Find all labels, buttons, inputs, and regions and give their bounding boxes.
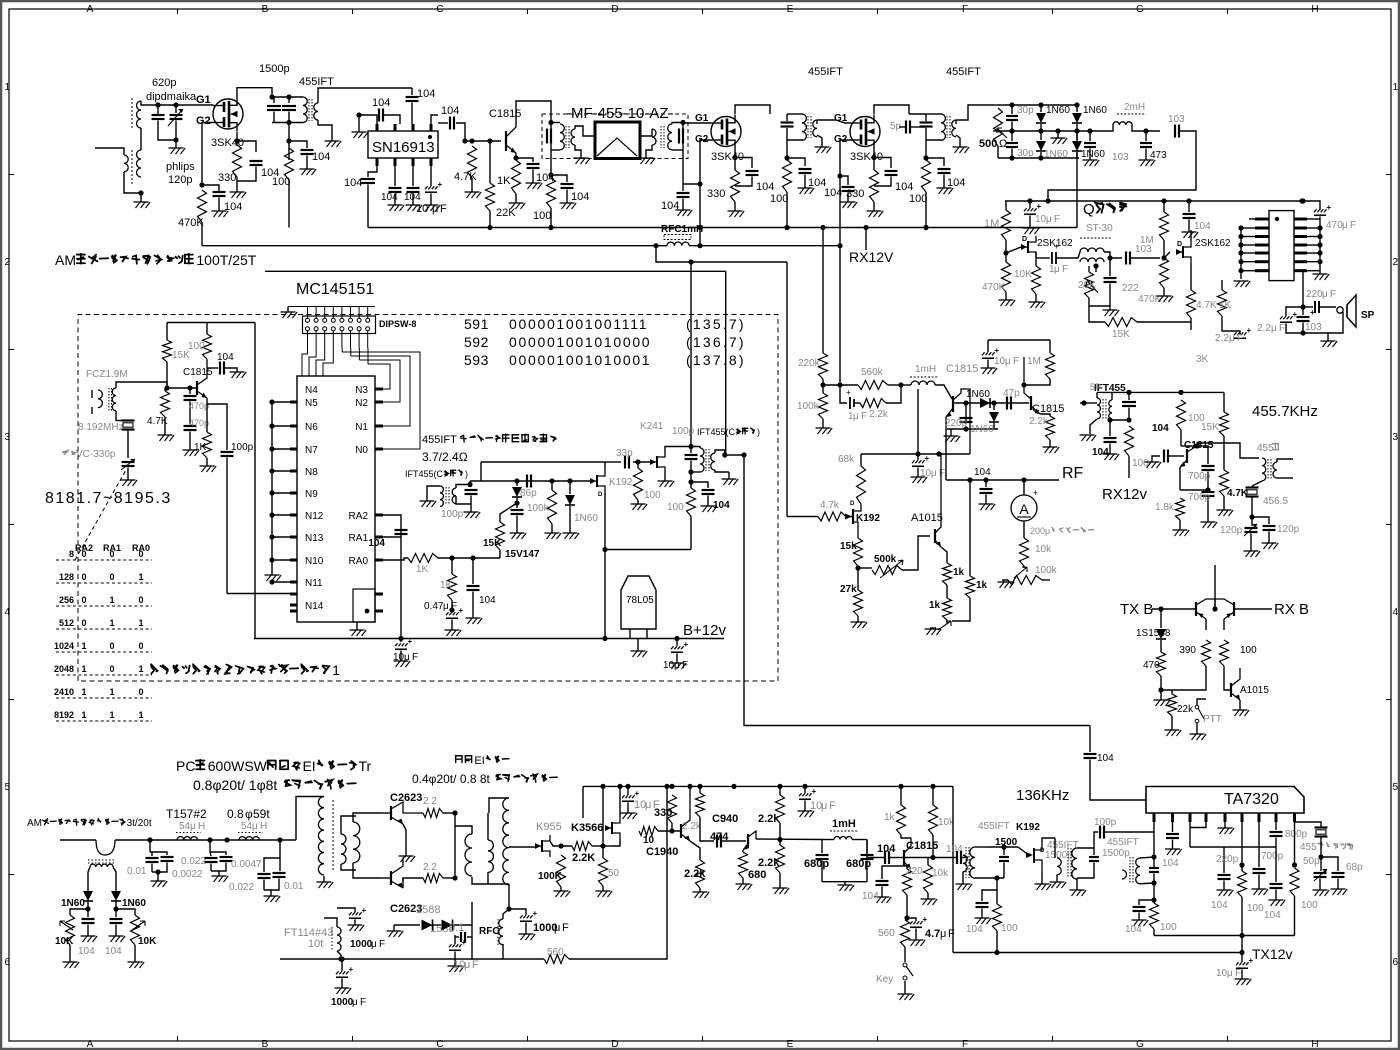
- svg-text:0.022: 0.022: [181, 856, 206, 867]
- svg-text:N8: N8: [305, 467, 318, 478]
- svg-text:1.8k: 1.8k: [1155, 502, 1175, 513]
- svg-text:1: 1: [332, 662, 340, 678]
- svg-text:(135.7): (135.7): [686, 316, 746, 332]
- svg-text:2.2k: 2.2k: [1029, 416, 1049, 427]
- svg-text:μ: μ: [853, 411, 859, 422]
- svg-text:1000: 1000: [331, 997, 354, 1008]
- svg-text:1K: 1K: [497, 175, 511, 187]
- svg-text:5: 5: [1268, 443, 1274, 454]
- svg-text:22K: 22K: [496, 207, 516, 219]
- svg-text:1N60: 1N60: [1081, 149, 1105, 160]
- svg-text:100: 100: [188, 341, 205, 352]
- svg-text:30p: 30p: [1017, 105, 1034, 116]
- svg-text:0.47: 0.47: [424, 601, 444, 612]
- svg-text:μ: μ: [1227, 968, 1233, 979]
- svg-text:H: H: [260, 821, 267, 832]
- svg-text:104: 104: [441, 105, 459, 117]
- svg-text:1: 1: [81, 710, 86, 720]
- svg-text:0: 0: [109, 664, 114, 674]
- svg-text:512: 512: [59, 618, 74, 628]
- svg-text:IFT455(C: IFT455(C: [697, 427, 736, 437]
- svg-text:4.7: 4.7: [925, 928, 940, 940]
- svg-text:128: 128: [59, 572, 74, 582]
- svg-text:μ: μ: [1322, 289, 1328, 300]
- svg-text:120p: 120p: [1277, 524, 1300, 535]
- svg-text:0: 0: [81, 549, 86, 559]
- svg-text:1: 1: [1393, 82, 1399, 93]
- svg-text:104: 104: [344, 177, 362, 189]
- svg-text:1: 1: [81, 664, 86, 674]
- svg-text:2410: 2410: [54, 687, 74, 697]
- svg-text:104: 104: [105, 946, 122, 957]
- svg-text:330: 330: [846, 188, 864, 200]
- svg-text:104: 104: [479, 595, 496, 606]
- svg-text:SN16913: SN16913: [372, 139, 435, 156]
- svg-text:C: C: [436, 1039, 443, 1050]
- svg-text:8: 8: [69, 549, 74, 559]
- svg-text:8192: 8192: [54, 710, 74, 720]
- svg-text:470: 470: [1143, 660, 1160, 671]
- svg-text:μ: μ: [464, 959, 470, 971]
- svg-text:1N60: 1N60: [61, 898, 85, 909]
- svg-text:0: 0: [138, 595, 143, 605]
- svg-text:10K: 10K: [1014, 269, 1032, 280]
- svg-text:RFC1mH: RFC1mH: [661, 224, 703, 235]
- svg-text:F: F: [1235, 968, 1241, 979]
- svg-text:G1: G1: [834, 113, 848, 124]
- svg-text:700p: 700p: [1261, 851, 1284, 862]
- svg-text:1K: 1K: [416, 564, 429, 575]
- svg-text:104: 104: [1194, 221, 1211, 232]
- svg-text:K241: K241: [640, 421, 664, 432]
- svg-text:ST-30: ST-30: [1086, 223, 1113, 234]
- svg-text:F: F: [360, 997, 366, 1008]
- svg-text:104: 104: [368, 538, 385, 549]
- svg-text:+: +: [462, 938, 467, 947]
- svg-text:1S1588: 1S1588: [1136, 628, 1171, 639]
- svg-text:104: 104: [966, 924, 983, 935]
- svg-text:50p: 50p: [1303, 856, 1320, 867]
- svg-text:500k: 500k: [874, 554, 897, 565]
- svg-text:10K: 10K: [138, 936, 157, 947]
- svg-text:+: +: [459, 606, 464, 615]
- svg-text:F: F: [682, 660, 688, 671]
- svg-text:20K: 20K: [1078, 280, 1096, 291]
- svg-text:1: 1: [138, 664, 143, 674]
- svg-text:N6: N6: [305, 422, 318, 433]
- svg-text:1mH: 1mH: [915, 364, 936, 375]
- svg-text:10: 10: [663, 660, 675, 671]
- svg-text:1M: 1M: [1027, 356, 1041, 367]
- svg-text:100K: 100K: [538, 871, 563, 882]
- svg-text:10k: 10k: [932, 868, 949, 879]
- svg-text:N7: N7: [305, 445, 318, 456]
- svg-text:220: 220: [1306, 289, 1323, 300]
- svg-text:1: 1: [138, 618, 143, 628]
- svg-text:μ: μ: [1271, 323, 1277, 334]
- svg-text:470K: 470K: [982, 282, 1006, 293]
- svg-text:800p: 800p: [1285, 829, 1308, 840]
- svg-text:120p: 120p: [168, 174, 192, 186]
- svg-text:RA1: RA1: [349, 533, 369, 544]
- svg-text:104: 104: [1097, 753, 1114, 764]
- svg-text:K3566: K3566: [571, 822, 603, 834]
- svg-text:μ: μ: [940, 928, 946, 940]
- svg-text:2.2: 2.2: [1215, 333, 1229, 344]
- svg-text:104: 104: [1264, 910, 1281, 921]
- svg-text:100: 100: [770, 193, 788, 205]
- svg-text:0.0022: 0.0022: [172, 869, 203, 880]
- svg-text:μ: μ: [554, 922, 560, 934]
- svg-text:E: E: [787, 1039, 794, 1050]
- svg-text:F: F: [379, 939, 385, 950]
- svg-text:1024: 1024: [54, 641, 74, 651]
- svg-text:455.7KHz: 455.7KHz: [1252, 403, 1318, 420]
- svg-text:0: 0: [138, 641, 143, 651]
- svg-text:330: 330: [707, 188, 725, 200]
- svg-text:RX B: RX B: [1274, 601, 1309, 618]
- svg-text:104: 104: [895, 181, 913, 193]
- svg-text:dipdmaika: dipdmaika: [146, 91, 197, 103]
- svg-text:A1015: A1015: [1240, 685, 1269, 696]
- svg-text:50: 50: [608, 868, 620, 879]
- svg-text:103: 103: [1305, 322, 1322, 333]
- svg-text:N14: N14: [305, 601, 324, 612]
- svg-text:1K: 1K: [194, 442, 207, 453]
- svg-text:N12: N12: [305, 511, 324, 522]
- svg-text:104: 104: [372, 97, 390, 109]
- svg-text:F: F: [1330, 289, 1336, 300]
- svg-text:1k: 1k: [953, 567, 965, 578]
- svg-text:2.2: 2.2: [423, 796, 437, 807]
- svg-text:Tr: Tr: [359, 758, 372, 774]
- svg-text:(136.7): (136.7): [686, 334, 746, 350]
- svg-text:220: 220: [906, 866, 923, 877]
- svg-text:22k: 22k: [1177, 704, 1194, 715]
- svg-text:F: F: [1279, 323, 1285, 334]
- svg-text:104: 104: [417, 88, 435, 100]
- svg-text:μ: μ: [443, 601, 449, 612]
- svg-text:100: 100: [667, 502, 684, 513]
- svg-text:D: D: [850, 501, 855, 507]
- svg-text:10: 10: [416, 203, 428, 215]
- svg-text:+: +: [1033, 488, 1038, 498]
- svg-text:5: 5: [1393, 782, 1399, 793]
- svg-text:560: 560: [878, 928, 895, 939]
- svg-text:N11: N11: [305, 578, 323, 589]
- svg-text:1: 1: [109, 687, 114, 697]
- svg-text:473: 473: [1150, 150, 1167, 161]
- svg-text:RFC: RFC: [479, 926, 500, 937]
- svg-text:68k: 68k: [838, 454, 855, 465]
- svg-text:620p: 620p: [152, 77, 176, 89]
- svg-text:A: A: [1019, 501, 1029, 517]
- svg-text:1: 1: [5, 82, 11, 93]
- svg-text:100p: 100p: [1094, 817, 1117, 828]
- svg-text:DIPSW-8: DIPSW-8: [379, 319, 416, 329]
- svg-text:0: 0: [109, 641, 114, 651]
- svg-text:μ: μ: [645, 799, 651, 811]
- svg-text:1N60: 1N60: [966, 389, 990, 400]
- svg-text:N13: N13: [305, 533, 324, 544]
- svg-text:TX B: TX B: [1120, 601, 1153, 618]
- svg-text:104: 104: [78, 946, 95, 957]
- svg-text:0.0047: 0.0047: [231, 859, 262, 870]
- svg-text:4.7K: 4.7K: [147, 416, 168, 427]
- svg-text:103: 103: [1168, 114, 1185, 125]
- svg-text:+: +: [635, 789, 640, 798]
- svg-text:3: 3: [5, 432, 11, 443]
- svg-text:φ: φ: [245, 807, 253, 821]
- svg-text:F: F: [1013, 356, 1019, 367]
- svg-text:560: 560: [547, 947, 564, 958]
- svg-text:8.192MHz: 8.192MHz: [78, 422, 124, 433]
- svg-text:VC-330p: VC-330p: [76, 449, 116, 460]
- svg-text:C940: C940: [712, 813, 738, 825]
- svg-text:136KHz: 136KHz: [1016, 787, 1069, 804]
- svg-text:100: 100: [1001, 923, 1018, 934]
- svg-text:54: 54: [179, 821, 191, 832]
- svg-text:1N60: 1N60: [970, 424, 994, 435]
- svg-text:F: F: [861, 411, 867, 422]
- svg-text:2.2k: 2.2k: [682, 821, 702, 832]
- svg-text:+: +: [1054, 242, 1059, 251]
- svg-text:F: F: [962, 4, 968, 15]
- svg-text:100p: 100p: [672, 426, 695, 437]
- svg-text:100: 100: [1160, 922, 1177, 933]
- svg-text:680p: 680p: [846, 858, 871, 870]
- svg-text:1: 1: [109, 595, 114, 605]
- svg-text:IFT455(C: IFT455(C: [405, 469, 444, 479]
- svg-text:4.7K: 4.7K: [454, 171, 477, 183]
- svg-text:104: 104: [877, 843, 896, 855]
- svg-text:470p: 470p: [189, 401, 209, 411]
- svg-text:F: F: [962, 1039, 968, 1050]
- svg-text:K192: K192: [609, 477, 633, 488]
- svg-text:86p: 86p: [520, 488, 537, 499]
- svg-text:2.2: 2.2: [423, 862, 437, 873]
- svg-text:10K: 10K: [55, 936, 74, 947]
- svg-text:4.7K: 4.7K: [1196, 300, 1217, 311]
- svg-text:SP: SP: [1361, 310, 1375, 321]
- svg-text:455IFT: 455IFT: [808, 66, 843, 78]
- svg-text:104: 104: [1211, 900, 1228, 911]
- svg-text:220k: 220k: [798, 358, 821, 369]
- svg-text:100k: 100k: [1035, 565, 1058, 576]
- svg-text:455: 455: [1300, 842, 1317, 853]
- svg-text:000001001010001: 000001001010001: [509, 352, 651, 368]
- svg-text:F: F: [1054, 214, 1060, 225]
- svg-text:C1815: C1815: [946, 363, 978, 375]
- svg-text:4.7k: 4.7k: [820, 500, 840, 511]
- svg-text:1500p: 1500p: [259, 63, 290, 75]
- svg-text:30p: 30p: [1017, 148, 1034, 159]
- svg-text:EI: EI: [474, 755, 484, 767]
- svg-text:100: 100: [533, 210, 551, 222]
- svg-text:455IFT: 455IFT: [1107, 837, 1139, 848]
- svg-text:H: H: [1311, 4, 1318, 15]
- svg-text:G1: G1: [695, 113, 709, 124]
- svg-text:μ: μ: [931, 468, 937, 479]
- svg-text:μ: μ: [1054, 264, 1060, 275]
- svg-text:G1: G1: [196, 94, 211, 106]
- svg-text:10: 10: [994, 356, 1006, 367]
- svg-text:104: 104: [224, 201, 242, 213]
- svg-text:100p: 100p: [441, 509, 464, 520]
- svg-text:455IFT: 455IFT: [422, 434, 457, 446]
- svg-text:N10: N10: [305, 556, 324, 567]
- svg-text:N2: N2: [355, 398, 368, 409]
- svg-text:104: 104: [217, 352, 234, 363]
- svg-text:+: +: [1247, 326, 1252, 335]
- svg-text:+: +: [812, 787, 817, 796]
- svg-text:390: 390: [1179, 645, 1196, 656]
- svg-text:104: 104: [947, 177, 965, 189]
- svg-text:2.2k: 2.2k: [684, 868, 706, 880]
- svg-text:10: 10: [393, 652, 405, 663]
- svg-text:1: 1: [81, 687, 86, 697]
- svg-text:0: 0: [138, 549, 143, 559]
- svg-text:1N60: 1N60: [1083, 105, 1107, 116]
- svg-text:700p: 700p: [1188, 492, 1211, 503]
- svg-text:470: 470: [1326, 220, 1343, 231]
- svg-text:100: 100: [1247, 903, 1264, 914]
- svg-text:100: 100: [644, 490, 661, 501]
- svg-text:455IFT: 455IFT: [299, 76, 334, 88]
- svg-text:μ: μ: [821, 800, 827, 812]
- svg-text:μ: μ: [1046, 214, 1052, 225]
- svg-text:+: +: [846, 388, 851, 397]
- svg-text:μ: μ: [252, 821, 258, 832]
- svg-text:RA2: RA2: [349, 511, 369, 522]
- svg-text:TA7320: TA7320: [1224, 791, 1279, 808]
- svg-text:8181.7~8195.3: 8181.7~8195.3: [45, 490, 172, 507]
- svg-text:100: 100: [272, 176, 290, 188]
- svg-text:AM: AM: [27, 818, 42, 829]
- svg-text:F: F: [440, 203, 447, 215]
- svg-text:FCZ1.9M: FCZ1.9M: [86, 369, 128, 380]
- svg-text:1k: 1k: [929, 600, 941, 611]
- svg-text:104: 104: [571, 191, 589, 203]
- svg-text:3.7/2.4Ω: 3.7/2.4Ω: [422, 450, 468, 464]
- svg-text:100: 100: [909, 193, 927, 205]
- svg-text:1: 1: [138, 572, 143, 582]
- svg-text:1: 1: [81, 641, 86, 651]
- svg-text:54: 54: [241, 821, 253, 832]
- svg-text:1N60: 1N60: [1046, 105, 1070, 116]
- svg-text:H: H: [1311, 1039, 1318, 1050]
- svg-text:78L05: 78L05: [626, 595, 654, 606]
- svg-text:0: 0: [81, 572, 86, 582]
- svg-text:3t/20t: 3t/20t: [127, 818, 152, 829]
- svg-text:0: 0: [109, 572, 114, 582]
- svg-text:5P: 5P: [1090, 382, 1101, 392]
- svg-text:-MF-455-10-AZ-: -MF-455-10-AZ-: [566, 105, 674, 122]
- svg-text:C1940: C1940: [646, 846, 678, 858]
- svg-text:D: D: [1177, 241, 1182, 248]
- svg-text:0: 0: [109, 549, 114, 559]
- svg-text:+: +: [1249, 956, 1254, 965]
- svg-text:+: +: [533, 909, 538, 918]
- svg-text:F: F: [562, 922, 569, 934]
- svg-text:2mH: 2mH: [1124, 102, 1145, 113]
- svg-text:100k: 100k: [527, 503, 550, 514]
- svg-text:D: D: [1022, 236, 1027, 243]
- svg-text:0.4φ20t/ 0.8 8t: 0.4φ20t/ 0.8 8t: [412, 772, 491, 786]
- svg-text:591: 591: [464, 316, 489, 332]
- svg-text:RA0: RA0: [349, 556, 369, 567]
- svg-text:1M: 1M: [1140, 235, 1154, 246]
- svg-text:220p: 220p: [1216, 854, 1239, 865]
- svg-text:PC: PC: [176, 758, 195, 774]
- svg-text:N5: N5: [305, 398, 318, 409]
- svg-text:1: 1: [109, 618, 114, 628]
- svg-text:455IFT: 455IFT: [978, 821, 1010, 832]
- svg-text:10k: 10k: [1035, 544, 1052, 555]
- svg-text:593: 593: [464, 352, 489, 368]
- svg-text:330: 330: [654, 807, 672, 819]
- svg-text:100p: 100p: [231, 442, 254, 453]
- svg-text:100T/25T: 100T/25T: [196, 252, 256, 268]
- svg-text:N1: N1: [355, 422, 368, 433]
- svg-text:μ: μ: [432, 203, 438, 215]
- svg-text:N3: N3: [355, 385, 368, 396]
- svg-text:+: +: [995, 346, 1000, 355]
- svg-text:+: +: [925, 454, 930, 463]
- svg-text:000001001001111: 000001001001111: [509, 316, 648, 332]
- svg-text:68p: 68p: [1346, 862, 1363, 873]
- svg-text:N9: N9: [305, 489, 318, 500]
- svg-text:3: 3: [1393, 432, 1399, 443]
- svg-text:680p: 680p: [804, 858, 829, 870]
- svg-text:0: 0: [138, 687, 143, 697]
- svg-text:2SK162: 2SK162: [1195, 238, 1231, 249]
- svg-text:100k: 100k: [797, 401, 820, 412]
- svg-text:1N60: 1N60: [1044, 149, 1068, 160]
- svg-text:104: 104: [404, 192, 421, 203]
- svg-text:103: 103: [1112, 152, 1129, 163]
- svg-text:120p: 120p: [1220, 525, 1243, 536]
- svg-text:K192: K192: [1016, 822, 1040, 833]
- svg-text:G: G: [1136, 1039, 1144, 1050]
- svg-text:PTT: PTT: [1203, 714, 1222, 725]
- svg-text:222: 222: [1122, 283, 1139, 294]
- svg-text:330: 330: [218, 172, 236, 184]
- svg-text:C2623: C2623: [390, 792, 422, 804]
- svg-text:470K: 470K: [178, 217, 204, 229]
- svg-text:104: 104: [824, 187, 842, 199]
- svg-text:104: 104: [713, 500, 730, 511]
- svg-text:μ: μ: [1342, 220, 1348, 231]
- svg-text:A: A: [87, 4, 94, 15]
- svg-text:+: +: [438, 180, 443, 189]
- svg-text:455IFT: 455IFT: [946, 66, 981, 78]
- svg-text:0.01: 0.01: [284, 881, 304, 892]
- svg-text:10: 10: [643, 835, 655, 846]
- svg-text:A1015: A1015: [911, 512, 943, 524]
- svg-text:phlips: phlips: [166, 161, 195, 173]
- svg-text:F: F: [451, 601, 457, 612]
- svg-text:0.022: 0.022: [229, 882, 254, 893]
- svg-text:RX12v: RX12v: [1102, 486, 1148, 503]
- svg-text:D: D: [611, 1039, 618, 1050]
- svg-text:1000: 1000: [350, 939, 373, 950]
- svg-text:2.2: 2.2: [1257, 323, 1271, 334]
- svg-text:0: 0: [81, 618, 86, 628]
- svg-text:104: 104: [1162, 858, 1179, 869]
- svg-text:T157#2: T157#2: [166, 807, 207, 821]
- svg-text:33p: 33p: [616, 448, 633, 459]
